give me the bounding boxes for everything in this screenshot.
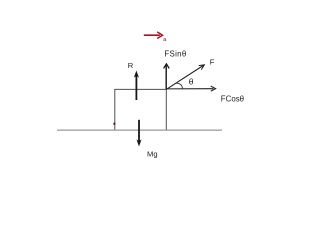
red dot at block bottom-left bbox=[113, 123, 115, 125]
vertical force component arrow FSin0 bbox=[164, 64, 170, 90]
svg-text:Mg: Mg bbox=[147, 150, 158, 159]
svg-text:FSinθ: FSinθ bbox=[164, 50, 186, 59]
svg-text:FCosθ: FCosθ bbox=[221, 94, 244, 103]
block (box on ground) bbox=[115, 89, 167, 129]
ground line bbox=[57, 129, 222, 131]
acceleration arrow (red) bbox=[144, 32, 163, 39]
angle arc theta bbox=[175, 83, 182, 89]
svg-text:R: R bbox=[128, 61, 134, 70]
horizontal force component arrow FCos0 bbox=[166, 86, 215, 91]
applied force arrow F bbox=[166, 65, 204, 90]
normal reaction arrow R bbox=[134, 71, 139, 101]
weight arrow Mg bbox=[136, 120, 141, 147]
svg-text:F: F bbox=[210, 58, 215, 67]
svg-text:θ: θ bbox=[189, 76, 194, 86]
